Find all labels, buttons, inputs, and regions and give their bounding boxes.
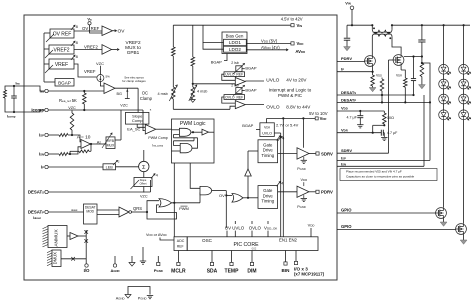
wire rfb up: [120, 110, 122, 137]
wire 10ohm to vdr: [373, 124, 385, 126]
wire pwmbar up: [199, 192, 201, 202]
ground q4: [463, 234, 465, 240]
mosfet Q1: [365, 56, 376, 67]
wire secondary to q2: [392, 37, 401, 55]
svg-text:Bias Gen: Bias Gen: [226, 33, 244, 38]
capacitor vdr 4.7uF: [380, 130, 382, 136]
wire sigma up: [143, 150, 145, 161]
block DESAT MOD: [84, 204, 98, 224]
svg-text:VDD: VDD: [308, 223, 315, 228]
svg-text:BGAP: BGAP: [245, 88, 256, 93]
wires pic top: [226, 231, 228, 237]
resistor comp: [4, 90, 7, 98]
bgap block: [55, 79, 74, 87]
svg-text:SDRV: SDRV: [321, 151, 333, 156]
svg-text:AGND: AGND: [110, 268, 119, 273]
svg-text:VDD (5V): VDD (5V): [261, 38, 278, 43]
wire EA to slope comp: [137, 88, 139, 112]
svg-text:LDO1: LDO1: [229, 40, 241, 45]
wire pwm internal: [209, 131, 215, 133]
led D4: [439, 110, 449, 120]
wire comp loop: [5, 86, 14, 90]
mosfet Q4 gpio: [456, 224, 467, 235]
pin VDD: [291, 42, 294, 45]
wire rail to ldos: [203, 25, 224, 42]
pin VDR: [315, 117, 318, 120]
svg-text:VZC: VZC: [96, 61, 104, 66]
resistor rail 2: [192, 25, 194, 57]
svg-text:GPIO: GPIO: [341, 224, 352, 229]
wire Icomp to pin: [14, 110, 45, 112]
block DMUX: [52, 250, 61, 267]
block LEB: [103, 164, 116, 170]
svg-text:4.7 μF: 4.7 μF: [347, 115, 358, 119]
svg-text:OV: OV: [219, 193, 225, 198]
capacitor comp: [13, 86, 15, 96]
gate and OV: [200, 186, 212, 195]
svg-text:4 msb: 4 msb: [197, 90, 207, 94]
svg-text:Capacitors as close to respect: Capacitors as close to respective pins a…: [346, 174, 415, 178]
led D7: [459, 94, 469, 104]
led string 1: [443, 25, 445, 64]
svg-text:GPIO: GPIO: [341, 208, 352, 213]
wire Isn: [48, 153, 59, 155]
svg-text:MOD: MOD: [86, 210, 94, 214]
wire anmux out: [78, 235, 86, 237]
svg-text:VDR: VDR: [396, 74, 402, 78]
svg-text:VIN: VIN: [345, 1, 350, 6]
pin BIN: [285, 251, 287, 263]
svg-text:2.7V or 5.4V: 2.7V or 5.4V: [276, 123, 299, 128]
wire cs to EA: [100, 82, 104, 87]
svg-text:DESATS: DESATS: [341, 90, 356, 95]
gate or drv: [232, 194, 243, 203]
svg-text:BGAP: BGAP: [211, 59, 222, 64]
svg-text:GPB1: GPB1: [127, 50, 140, 55]
pin IOx3: [295, 251, 297, 262]
svg-text:VREF: VREF: [84, 69, 96, 74]
svg-text:VZC: VZC: [140, 195, 148, 199]
comparator OV: [102, 26, 113, 36]
wire uvloref wrap: [222, 74, 236, 80]
resistor A10 bias: [70, 113, 74, 130]
block Gate Drive Timing 2: [258, 186, 278, 209]
wire AI: [91, 143, 107, 145]
wire agnd pgnd bridge: [128, 287, 150, 295]
note placement: [340, 169, 437, 181]
svg-text:Icomp: Icomp: [7, 115, 16, 119]
wire isn to amp: [68, 147, 81, 154]
svg-text:UVLO_REF: UVLO_REF: [225, 73, 243, 77]
svg-text:VREF2: VREF2: [53, 47, 69, 53]
svg-text:VDD: VDD: [297, 41, 304, 46]
svg-text:LDO2: LDO2: [229, 47, 241, 52]
svg-text:for clamp voltages: for clamp voltages: [122, 79, 146, 83]
svg-text:OV_REF: OV_REF: [82, 26, 100, 31]
svg-text:REF: REF: [177, 244, 184, 248]
block ANMUX: [48, 226, 67, 248]
wire Iea to pin: [14, 86, 45, 91]
svg-text:Timing: Timing: [261, 153, 274, 158]
pin MCLR: [177, 251, 179, 263]
ldo LDO2: [224, 46, 247, 52]
block Bias Gen: [222, 32, 247, 54]
svg-text:8.8V to 44V: 8.8V to 44V: [286, 104, 311, 109]
led D6: [459, 79, 469, 89]
svg-text:desat: desat: [71, 208, 78, 212]
wire q2 drain out: [404, 56, 422, 58]
svg-text:VIN: VIN: [297, 23, 303, 28]
svg-text:PWM Logic: PWM Logic: [180, 121, 206, 127]
wire vdr to sdrv buffer: [302, 118, 304, 147]
latch cross wires: [174, 137, 198, 139]
transformer secondary: [372, 33, 392, 36]
svg-text:5V to 10V: 5V to 10V: [309, 111, 328, 116]
node Icomp external: [13, 111, 15, 113]
svg-text:(x7 MCP19117): (x7 MCP19117): [294, 271, 325, 276]
wire dac down VZC: [143, 187, 145, 193]
resistor 10ohm: [383, 111, 385, 113]
led D5: [459, 64, 469, 74]
svg-text:BG: BG: [117, 92, 123, 96]
svg-text:UVLO: UVLO: [262, 131, 272, 135]
svg-text:2 lsb: 2 lsb: [231, 61, 239, 65]
rail Vin internal: [173, 24, 291, 26]
svg-text:Place recommended VDD and VIN: Place recommended VDD and VIN 4.7 μF: [346, 170, 402, 174]
svg-text:A = 10: A = 10: [77, 134, 91, 140]
wire to GPB1: [112, 49, 120, 51]
wire Va to OV comparator: [90, 25, 103, 33]
wire pwm bus a: [173, 163, 175, 237]
pin SDRV: [316, 152, 319, 155]
divider node: [421, 57, 423, 64]
wire Isp: [48, 134, 59, 136]
led D8: [459, 110, 469, 120]
ground AGND external: [125, 295, 131, 299]
svg-text:AVDD (4V): AVDD (4V): [261, 45, 280, 50]
svg-text:QRS: QRS: [133, 206, 142, 211]
svg-text:Comp: Comp: [132, 118, 143, 123]
svg-text:OV UVLO: OV UVLO: [225, 226, 245, 231]
ldo LDO1: [224, 39, 247, 45]
dac VREF2: [49, 45, 74, 54]
svg-text:VDD or AVDD: VDD or AVDD: [146, 233, 167, 237]
bootstrap cap: [413, 57, 415, 79]
wire gd1 to sdrv: [278, 153, 297, 155]
varres 4msb 1: [172, 87, 176, 99]
capacitor out: [421, 25, 423, 40]
wire vin down: [351, 10, 353, 26]
svg-text:PWM Comp: PWM Comp: [148, 136, 167, 140]
wire ovloref wrap: [222, 97, 236, 103]
resistor Isp: [59, 134, 68, 137]
svg-text:VREF: VREF: [55, 62, 68, 68]
resistor divider: [420, 63, 424, 77]
wire sense to uvlo: [192, 83, 194, 85]
svg-text:VDR: VDR: [301, 178, 308, 182]
gate and2 internal: [180, 143, 192, 152]
current source 5%: [97, 75, 104, 82]
wire: [5, 98, 14, 112]
comparator UVLO: [235, 78, 245, 86]
wire gd2 to pdrv: [278, 191, 297, 193]
block RFB MUX: [106, 137, 115, 149]
op-amp EA: [104, 83, 115, 94]
led D1: [439, 64, 449, 74]
svg-text:PGND: PGND: [154, 268, 163, 273]
svg-text:ANMUX: ANMUX: [54, 229, 60, 247]
svg-text:BGAP: BGAP: [58, 81, 71, 86]
svg-text:AGND: AGND: [116, 297, 125, 301]
led string 2: [463, 25, 465, 64]
wire wiper1 to ovlo: [172, 99, 174, 109]
pin IO bottom: [85, 264, 88, 267]
wire q2 source: [400, 65, 402, 70]
bus left refs: [43, 33, 45, 82]
resistor Isn: [59, 153, 68, 156]
buffer VREF2: [102, 45, 112, 55]
pin AGND bottom: [114, 256, 116, 264]
svg-text:OVLO: OVLO: [266, 104, 280, 110]
svg-text:PGND: PGND: [297, 167, 306, 171]
wire DESATp: [48, 211, 83, 213]
wire pwm bus b: [190, 163, 200, 188]
block PWM Logic: [172, 119, 215, 163]
wire led1 down: [443, 120, 445, 208]
ground pdrv buffer: [303, 195, 305, 198]
svg-text:Timing: Timing: [261, 199, 274, 204]
svg-text:MCLR: MCLR: [171, 268, 186, 274]
capacitor vin: [346, 25, 348, 38]
svg-text:AVDD: AVDD: [295, 49, 305, 54]
bus en1: [280, 133, 282, 237]
rail top external: [347, 24, 372, 26]
svg-text:PDRV: PDRV: [341, 56, 352, 61]
svg-text:TEMP: TEMP: [225, 268, 240, 274]
svg-text:SDA: SDA: [207, 268, 218, 274]
svg-text:OV: OV: [118, 29, 126, 35]
svg-text:EN1 EN2: EN1 EN2: [279, 237, 298, 242]
wire a10 feedback: [90, 144, 92, 151]
wire sigma down: [143, 172, 145, 178]
svg-text:Iea: Iea: [40, 89, 45, 94]
svg-text:DMUX: DMUX: [53, 252, 58, 265]
block PIC CORE: [187, 237, 318, 251]
wire OV_REF: [74, 30, 102, 32]
amp A10: [81, 140, 91, 149]
wire and out OV: [212, 190, 227, 192]
wire q1 source: [372, 66, 374, 75]
resistor q2 bias: [404, 78, 408, 87]
svg-text:VZC: VZC: [120, 103, 128, 107]
buffer pwm: [202, 129, 209, 135]
wire or out: [172, 202, 200, 204]
svg-text:UVLO: UVLO: [266, 78, 279, 84]
dac VREF: [49, 59, 74, 69]
summer sigma: [139, 161, 149, 171]
capacitor vdd 4.7uF: [359, 111, 361, 115]
svg-text:Offset: Offset: [140, 181, 147, 185]
comparator QRS: [119, 207, 129, 217]
svg-text:DESATP: DESATP: [341, 97, 356, 102]
transformer primary: [371, 24, 373, 26]
svg-text:Interrupt and Logic to: Interrupt and Logic to: [269, 88, 312, 93]
wire fb bracket: [422, 63, 430, 160]
svg-text:2 lsb: 2 lsb: [231, 83, 239, 87]
svg-text:002: 002: [252, 247, 257, 251]
svg-text:OV REF: OV REF: [53, 31, 72, 37]
ground sdrv buffer: [303, 157, 305, 161]
wire QRS out: [132, 211, 148, 213]
svg-text:PGND: PGND: [297, 205, 306, 209]
svg-text:ISN: ISN: [341, 161, 346, 166]
svg-text:OSC: OSC: [202, 238, 213, 243]
svg-text:10Ω: 10Ω: [387, 116, 394, 120]
block Gate Drive Timing 1: [258, 140, 278, 163]
wire VREF: [74, 64, 97, 77]
svg-text:ISP: ISP: [341, 155, 346, 160]
block VDR UVLO: [260, 123, 274, 137]
svg-text:VDR: VDR: [264, 125, 270, 129]
wire vdr uvlo out: [274, 132, 280, 134]
buffer PDRV: [297, 186, 309, 197]
svg-text:Iea: Iea: [16, 82, 21, 86]
wire VDD out: [246, 42, 291, 44]
ground PGND external: [147, 295, 153, 297]
svg-text:AI: AI: [97, 139, 101, 144]
varres 4msb 2: [191, 87, 195, 99]
buffer anmux: [67, 235, 70, 237]
led D2: [439, 79, 449, 89]
wire sdrv out: [309, 153, 316, 155]
svg-text:VDD: VDD: [341, 106, 348, 111]
chip boundary MCP19117: [24, 15, 337, 280]
dac slope offset: [134, 178, 152, 187]
svg-text:BGAP: BGAP: [245, 66, 256, 71]
svg-text:4.7 μF: 4.7 μF: [387, 131, 398, 135]
svg-text:OVLO_REF: OVLO_REF: [225, 96, 243, 100]
wire EA out: [115, 87, 138, 89]
switch x2: [61, 258, 86, 260]
svg-text:RFB: RFB: [107, 139, 115, 143]
buffer up: [247, 176, 249, 198]
svg-text:PGND: PGND: [138, 297, 147, 301]
switch x1: [85, 230, 87, 264]
gate or PWM: [159, 199, 172, 207]
resistor rail 1: [172, 25, 174, 47]
svg-text:DESATP: DESATP: [28, 210, 44, 215]
svg-text:IP: IP: [41, 165, 44, 170]
svg-text:MUX: MUX: [107, 143, 115, 147]
svg-text:PWM: PWM: [179, 206, 189, 211]
svg-text:PWM & PIC: PWM & PIC: [278, 93, 303, 98]
mosfet Q3 gpio: [436, 208, 447, 219]
svg-text:Icomp: Icomp: [31, 108, 44, 113]
svg-text:LEB: LEB: [106, 165, 114, 169]
svg-text:Rea_ref 5K: Rea_ref 5K: [59, 98, 77, 103]
svg-text:4V to 20V: 4V to 20V: [286, 78, 307, 83]
svg-text:I/O: I/O: [84, 268, 90, 273]
led D3: [439, 94, 449, 104]
svg-text:DIM: DIM: [247, 268, 256, 274]
wire LEB to sigma: [116, 166, 139, 168]
wire qrs loop: [147, 205, 177, 219]
wire Ip: [48, 166, 103, 168]
pin DIM: [251, 251, 253, 263]
svg-text:ISN: ISN: [39, 152, 44, 157]
wire Iea in: [48, 90, 104, 92]
wire OV out: [113, 30, 117, 32]
svg-text:ADC: ADC: [177, 239, 185, 243]
wire pdrv out: [309, 191, 316, 193]
svg-text:OVLO: OVLO: [249, 226, 262, 231]
dac OV REF: [50, 29, 74, 38]
block Slope Comp: [126, 112, 149, 124]
wire vdr: [267, 117, 316, 119]
svg-text:BIN: BIN: [282, 268, 291, 273]
node Iea external: [13, 85, 15, 87]
wire VREF2 out: [74, 49, 102, 51]
ground triangle internal: [131, 256, 133, 263]
svg-text:VDD: VDD: [376, 74, 382, 78]
wire secondary to q1: [371, 37, 373, 56]
pin TEMP: [231, 251, 233, 263]
svg-text:BGAP: BGAP: [242, 123, 253, 128]
svg-text:Idesat: Idesat: [33, 216, 41, 220]
wire desat to qrs: [97, 209, 119, 211]
wire Icomp in: [48, 109, 143, 111]
wire to amp: [68, 135, 81, 142]
block ADC REF: [174, 237, 187, 251]
svg-text:ISP: ISP: [39, 133, 44, 138]
svg-text:VDR: VDR: [320, 116, 327, 121]
gate and1: [179, 128, 191, 136]
resistor sense q1: [371, 75, 375, 86]
svg-text:4 msb: 4 msb: [157, 92, 167, 96]
ground divider: [192, 98, 194, 101]
wire OV to PIC: [225, 191, 227, 228]
svg-text:IP: IP: [341, 66, 344, 71]
svg-text:VREF2: VREF2: [84, 45, 98, 50]
svg-text:Iea_comp: Iea_comp: [152, 143, 163, 147]
svg-text:VDR: VDR: [341, 128, 348, 133]
pin PDRV: [316, 190, 319, 193]
wire AVDD out: [246, 49, 288, 51]
wire slope to pwm comp: [137, 124, 145, 127]
wire pwm comp out: [156, 128, 172, 130]
wire drv path: [243, 197, 258, 199]
svg-text:VZC: VZC: [68, 106, 76, 110]
comparator PWM Comp: [145, 125, 156, 135]
mosfet Q2: [393, 55, 404, 66]
svg-text:PDRV: PDRV: [321, 190, 333, 195]
svg-text:SDRV: SDRV: [341, 148, 352, 153]
pin PGND bottom: [157, 256, 159, 262]
ground earth internal: [142, 247, 144, 261]
svg-text:VDD_OK: VDD_OK: [264, 226, 277, 231]
transformer core: [373, 31, 392, 33]
pin VIN internal: [291, 24, 294, 27]
bus en2: [282, 118, 284, 236]
wire DESATs: [48, 191, 150, 193]
svg-text:DESATS: DESATS: [28, 190, 44, 195]
svg-text:5%: 5%: [106, 74, 111, 78]
wire led2 down: [463, 120, 465, 224]
pin SDA: [211, 251, 213, 263]
block OVLO_REF: [224, 95, 245, 100]
svg-text:Va: Va: [87, 17, 92, 22]
buffer SDRV: [297, 148, 309, 159]
